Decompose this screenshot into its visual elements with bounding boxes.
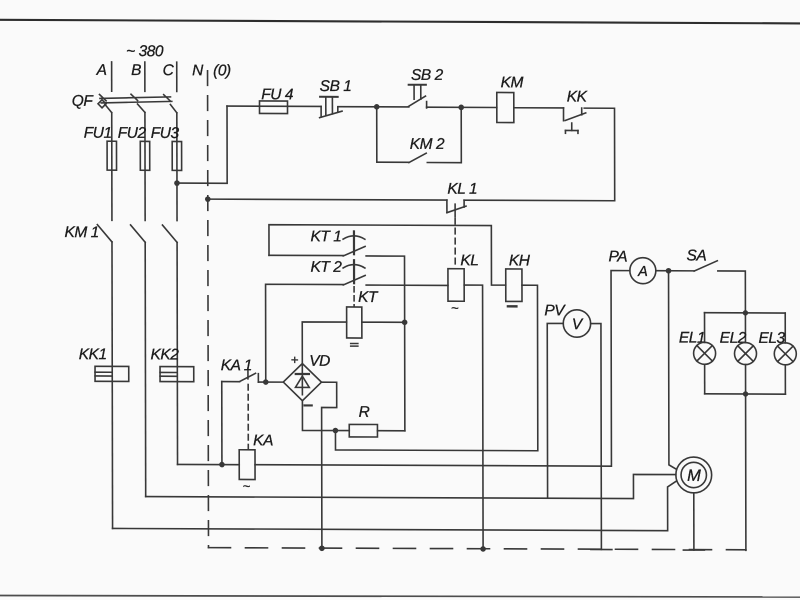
svg-text:~: ~ (243, 478, 251, 493)
svg-text:KM 2: KM 2 (410, 136, 445, 153)
contact KA1 (221, 357, 259, 382)
wire EL3 bottom (784, 365, 786, 394)
svg-text:KK: KK (567, 88, 588, 105)
wire phase C to KA coil (178, 463, 240, 465)
wire rail1 loop (269, 225, 506, 285)
wire VD right to N bus (321, 382, 337, 548)
svg-text:KM: KM (501, 74, 524, 91)
svg-text:~ 380: ~ 380 (126, 43, 164, 60)
terminal motor on N bus (683, 549, 704, 551)
wire phase B (144, 112, 146, 220)
wire KA coil to ammeter (255, 269, 631, 466)
wire A line to motor (112, 479, 676, 531)
wire lamp bus top (705, 312, 786, 314)
svg-text:PV: PV (544, 302, 566, 319)
circuit breaker QF (72, 93, 177, 113)
wire SB2 to KM coil (427, 106, 497, 108)
svg-text:A: A (96, 62, 107, 79)
svg-text:M: M (687, 467, 701, 485)
wire phase C (176, 113, 178, 221)
wire KM coil to KK (514, 107, 564, 109)
wire EL1 top (704, 313, 706, 343)
svg-text:A: A (637, 264, 648, 280)
link KA1 to KA coil (dashed) (247, 384, 249, 449)
wire B line to motor (146, 472, 676, 498)
wire KK to KL1 rail (584, 108, 614, 201)
wire PV right to N bus (591, 324, 602, 550)
node SB1 output junction (374, 104, 380, 110)
svg-text:EL2: EL2 (720, 330, 747, 347)
wire phase A stub (111, 62, 113, 91)
pushbutton SB1 (NC stop) (320, 78, 352, 118)
thermal contact KK (563, 88, 587, 133)
wire R right (377, 430, 404, 432)
svg-text:(0): (0) (213, 62, 231, 79)
node R left junction (333, 428, 339, 434)
node N to rail junction (205, 196, 211, 202)
thermal element KK2 (150, 346, 193, 381)
node KL on N bus (480, 546, 486, 552)
wire SB1 to junction (339, 106, 409, 108)
svg-text:KK2: KK2 (150, 346, 179, 363)
svg-text:C: C (163, 62, 175, 79)
wire phase C lower (176, 242, 178, 464)
svg-text:KH: KH (509, 252, 531, 269)
wire KL1 rail right (464, 199, 615, 202)
wire R junction to KH return (335, 284, 538, 450)
wire KT1 line left (269, 254, 343, 256)
wire PV left to B line (547, 323, 563, 498)
contact KL1 (447, 181, 477, 217)
svg-text:N: N (192, 62, 204, 79)
node SB2 output junction (458, 105, 464, 111)
svg-text:V: V (572, 316, 584, 333)
wire EL1 bottom (704, 364, 706, 394)
svg-text:FU1: FU1 (84, 125, 112, 142)
wire phase A lower (111, 242, 114, 529)
svg-text:KA: KA (253, 432, 273, 449)
wire phase C stub (176, 62, 178, 91)
svg-text:EL1: EL1 (679, 330, 705, 347)
svg-text:PA: PA (608, 248, 627, 265)
wire KT2 output to KL coil (366, 284, 448, 286)
contact KM2 (seal-in) (377, 107, 462, 163)
svg-text:SB 1: SB 1 (320, 78, 352, 95)
svg-text:KL 1: KL 1 (447, 181, 477, 198)
svg-text:KM 1: KM 1 (64, 224, 98, 241)
wire control line left (227, 105, 321, 107)
node KA1 output junction (263, 379, 269, 385)
wire KT1 output to R right (366, 256, 405, 431)
motor M (676, 457, 712, 493)
svg-text:EL3: EL3 (758, 330, 785, 347)
wire lamp bus bottom (705, 393, 786, 395)
svg-text:B: B (131, 62, 141, 79)
wire KA1 to VD left (258, 381, 283, 383)
svg-text:KT 2: KT 2 (311, 259, 343, 276)
svg-text:KT 1: KT 1 (310, 228, 341, 245)
wire KT2 line left (266, 284, 344, 382)
rectifier bridge VD (283, 353, 330, 406)
node VD right on N bus (319, 545, 325, 551)
wire motor to N bus (693, 493, 695, 550)
svg-text:KK1: KK1 (79, 346, 107, 363)
svg-text:SA: SA (686, 247, 706, 264)
svg-text:SB 2: SB 2 (411, 67, 444, 84)
wire VD minus to R (302, 401, 349, 431)
link KL1 to KL coil (dashed) (454, 218, 456, 267)
pushbutton SB2 (NO start) (408, 67, 443, 108)
svg-text:R: R (359, 404, 370, 421)
wire EL2 through to N bus (745, 365, 747, 551)
timed contact KT1 (310, 228, 365, 256)
wire ammeter to SA (656, 270, 694, 272)
svg-text:KT: KT (358, 289, 379, 306)
wire ammeter branch to motor (669, 271, 677, 470)
wire N bus bottom (dashed) (208, 548, 745, 550)
wire KA1 left down (221, 382, 223, 465)
timed contact KT2 (311, 259, 366, 285)
wire KL coil right to N bus (464, 285, 483, 549)
terminal PV on N bus (591, 548, 612, 550)
svg-text:FU2: FU2 (118, 125, 147, 142)
svg-text:KL: KL (460, 252, 478, 269)
svg-text:QF: QF (72, 93, 95, 110)
node KA line junction (219, 462, 225, 468)
link KT2 to KT coil (dashed) (353, 287, 355, 307)
thermal element KK1 (79, 346, 129, 381)
node ammeter output junction (666, 268, 672, 274)
wire phase A (111, 113, 113, 221)
svg-text:VD: VD (309, 353, 330, 370)
wire KT coil left to VD+ (302, 322, 346, 364)
svg-text:FU3: FU3 (151, 125, 180, 142)
node C branch to control circuit (174, 180, 180, 186)
node KT coil right junction (402, 320, 408, 326)
node lamp bus top (743, 310, 748, 315)
wire phase B stub (144, 62, 146, 91)
wire N (dashed) (207, 71, 210, 548)
wire FU3 to control circuit (177, 106, 227, 183)
wire SA to lamps (718, 271, 746, 343)
svg-text:~: ~ (451, 300, 459, 315)
contactor KM1 main contacts (64, 224, 177, 242)
wire phase B lower (144, 242, 147, 496)
wire KT coil right (362, 321, 405, 323)
wire KL1 rail left (208, 198, 447, 201)
wire EL3 top (784, 313, 786, 343)
